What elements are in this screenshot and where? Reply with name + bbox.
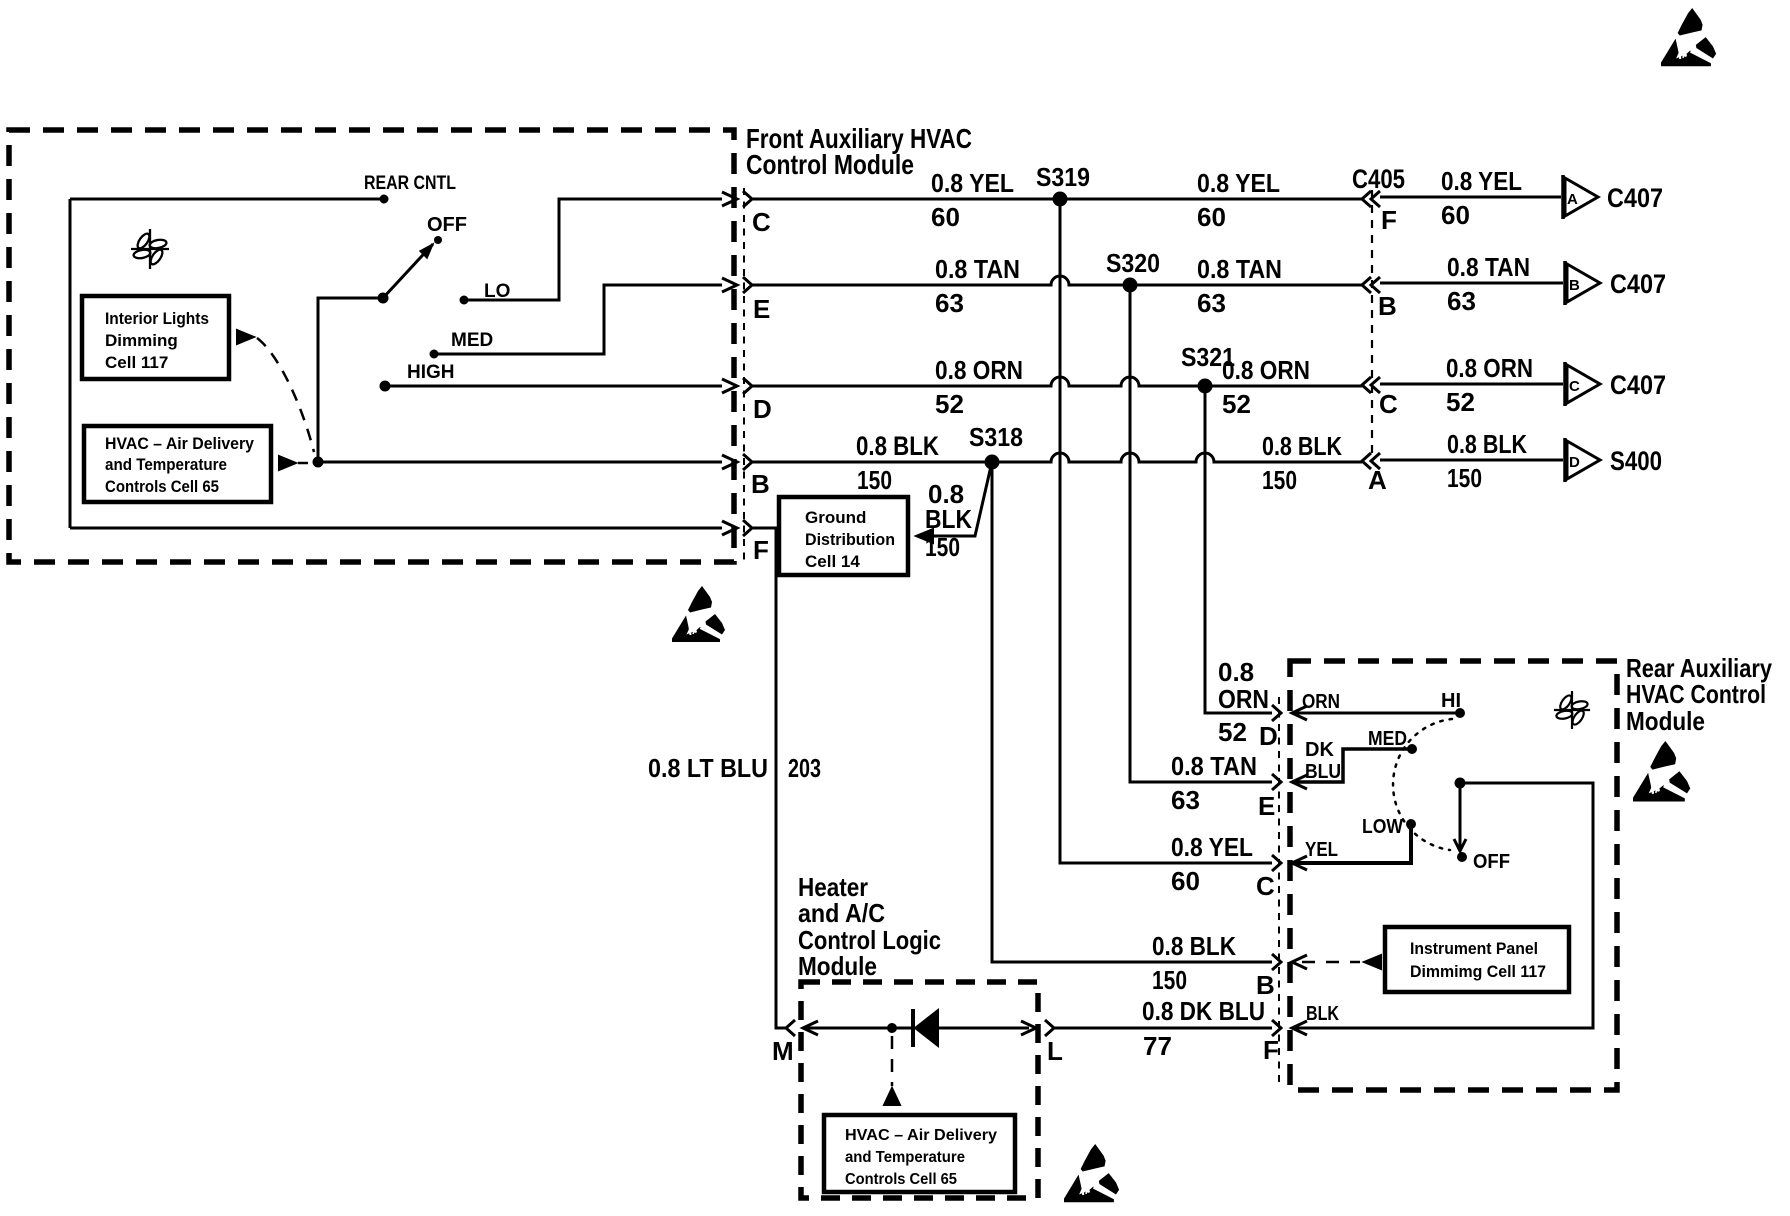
node HI (1455, 708, 1465, 718)
svg-text:C407: C407 (1607, 183, 1663, 213)
svg-text:B: B (1569, 277, 1580, 294)
svg-text:C: C (1379, 389, 1398, 419)
svg-text:HVAC – Air Delivery: HVAC – Air Delivery (105, 434, 254, 453)
svg-text:C: C (1569, 378, 1580, 395)
connector pin F (front module) (743, 520, 752, 536)
connector triangle D S400 (1563, 438, 1567, 482)
splice S319 (1053, 192, 1068, 207)
connector C405 dashed line (1371, 190, 1373, 462)
svg-text:C: C (752, 207, 771, 237)
diode CR (triangle) (915, 1010, 938, 1046)
box: Interior Lights Dimming Cell 117 (82, 296, 229, 379)
connector triangle C C407 (1563, 362, 1567, 406)
svg-text:Interior Lights: Interior Lights (105, 309, 209, 328)
node: HIGH contact (380, 381, 391, 392)
module box: Heater and A/C Control Logic Module (801, 982, 1038, 1198)
svg-text:52: 52 (1218, 717, 1247, 747)
C405 crossing C (1362, 377, 1371, 393)
svg-text:60: 60 (931, 202, 960, 232)
svg-text:ORN: ORN (1302, 691, 1340, 713)
svg-text:E: E (1258, 791, 1275, 821)
svg-text:0.8 TAN: 0.8 TAN (1447, 252, 1530, 282)
svg-text:C: C (1256, 871, 1275, 901)
wire: REAR CNTL feed (70, 198, 384, 201)
wire 0.8 YEL 60 (S319 to C405) (1060, 198, 1362, 201)
svg-text:150: 150 (925, 532, 960, 562)
connector pin B (front module) (743, 454, 752, 470)
svg-text:150: 150 (1152, 965, 1187, 995)
ESD symbol top right (1661, 8, 1716, 66)
svg-text:0.8 YEL: 0.8 YEL (1441, 166, 1522, 196)
module box: Rear Auxiliary HVAC Control Module (1290, 661, 1617, 1090)
svg-text:B: B (751, 469, 770, 499)
svg-text:Module: Module (798, 951, 877, 981)
svg-text:63: 63 (1197, 288, 1226, 318)
svg-text:MED: MED (451, 330, 493, 351)
svg-text:Control Module: Control Module (746, 149, 914, 180)
svg-text:BLK: BLK (1306, 1003, 1339, 1025)
leader arrow from Instrument Panel box (1364, 955, 1381, 969)
svg-text:ORN: ORN (1218, 684, 1269, 714)
C405 crossing A (1362, 453, 1371, 469)
box: HVAC - Air Delivery and Temperature Controls Cell 65 (left) (84, 426, 271, 502)
wire 0.8 ORN 52 (C405 to C407 C) (1380, 383, 1563, 386)
wire: wiper to rear pin F (BLK) (1292, 783, 1593, 1028)
connector triangle A C407 (1561, 175, 1565, 219)
svg-text:0.8 DK BLU: 0.8 DK BLU (1142, 996, 1265, 1026)
node: REAR CNTL contact (380, 195, 389, 204)
svg-text:0.8 YEL: 0.8 YEL (1197, 168, 1280, 198)
svg-text:HVAC – Air Delivery: HVAC – Air Delivery (845, 1127, 997, 1144)
svg-text:HIGH: HIGH (407, 362, 455, 383)
svg-text:C405: C405 (1352, 164, 1405, 194)
svg-text:Dimmimg Cell 117: Dimmimg Cell 117 (1410, 962, 1546, 981)
wire: F row (loop bottom) (70, 527, 722, 530)
svg-text:60: 60 (1197, 202, 1226, 232)
svg-text:F: F (1381, 205, 1397, 235)
ESD symbol near bottom HVAC box (1064, 1144, 1119, 1202)
wire: S320 drop to rear pin E (1130, 285, 1272, 782)
label: Front Auxiliary HVAC Control Module (746, 123, 972, 180)
node: switch pivot (378, 293, 389, 304)
svg-text:52: 52 (1222, 389, 1251, 419)
svg-text:MED: MED (1368, 728, 1407, 750)
svg-text:OFF: OFF (427, 214, 467, 236)
svg-text:0.8 ORN: 0.8 ORN (935, 355, 1023, 385)
wire 0.8 YEL 60 (C405 to C407 A) (1380, 196, 1561, 199)
svg-text:Controls Cell 65: Controls Cell 65 (105, 477, 219, 496)
svg-text:L: L (1047, 1036, 1063, 1066)
svg-text:YEL: YEL (1305, 839, 1338, 861)
connector pin D (front module) (743, 378, 752, 394)
svg-text:63: 63 (1171, 785, 1200, 815)
svg-text:S320: S320 (1106, 248, 1160, 278)
node MED (1407, 744, 1417, 754)
wire: OFF wiper with down arrow (1459, 783, 1462, 851)
svg-text:B: B (1256, 970, 1275, 1000)
svg-text:C407: C407 (1610, 370, 1666, 400)
svg-text:Dimming: Dimming (105, 331, 178, 350)
svg-text:C407: C407 (1610, 269, 1666, 299)
wire: S318 drop to rear pin B (992, 462, 1272, 962)
wire: left loop vertical (switch common) (69, 199, 72, 528)
leader arrow from Interior Lights box (237, 330, 254, 344)
svg-text:HVAC Control: HVAC Control (1626, 679, 1766, 709)
wire 0.8 TAN 63 (C405 to C407 B) (1380, 282, 1563, 285)
box: HVAC - Air Delivery and Temperature Controls Cell 65 (bottom) (824, 1115, 1015, 1192)
svg-text:Ground: Ground (805, 508, 866, 527)
svg-text:and A/C: and A/C (798, 898, 885, 928)
fan icon (rear blower) (1554, 691, 1590, 729)
svg-text:Module: Module (1626, 706, 1705, 736)
module box: Front Auxiliary HVAC Control Module (9, 130, 734, 562)
connector pin F (rear module) (1272, 1020, 1281, 1036)
diode CR (cathode bar) (911, 1009, 915, 1047)
wire: pin F to M (0.8 LT BLU 203) (752, 528, 786, 1028)
switch blade (fan switch wiper) (383, 244, 433, 298)
svg-text:OFF: OFF (1473, 851, 1510, 873)
node: wiper junction (1455, 778, 1466, 789)
box: Ground Distribution Cell 14 (779, 497, 908, 575)
wire: LO to pin C (464, 199, 722, 300)
connector pin L (1021, 1021, 1036, 1035)
connector triangle B C407 (1563, 261, 1567, 305)
node LOW (1406, 819, 1416, 829)
svg-text:0.8 BLK: 0.8 BLK (856, 431, 939, 461)
svg-text:0.8 TAN: 0.8 TAN (1171, 751, 1257, 781)
svg-text:Distribution: Distribution (805, 530, 895, 549)
svg-text:S318: S318 (969, 422, 1023, 452)
svg-text:77: 77 (1143, 1031, 1172, 1061)
wire: rear D to HI (1292, 712, 1460, 715)
svg-text:0.8 BLK: 0.8 BLK (1447, 429, 1527, 459)
svg-text:REAR CNTL: REAR CNTL (364, 173, 456, 194)
svg-text:150: 150 (1262, 465, 1297, 495)
connector pin C (rear module) (1272, 855, 1281, 871)
connector pin B (rear module) (1272, 954, 1281, 970)
C405 crossing F (1362, 191, 1371, 207)
svg-text:B: B (1378, 291, 1397, 321)
wire 0.8 ORN 52 (S321 to C405) (1205, 385, 1362, 388)
wire: pivot to junction (318, 298, 383, 462)
svg-text:0.8 YEL: 0.8 YEL (1171, 832, 1253, 862)
svg-text:0.8 TAN: 0.8 TAN (935, 254, 1020, 284)
dashed leader to HVAC cell box (891, 1036, 894, 1086)
connector pin E (rear module) (1272, 774, 1281, 790)
svg-text:0.8 BLK: 0.8 BLK (1262, 431, 1342, 461)
dashed leader to junction (257, 338, 314, 452)
svg-text:and Temperature: and Temperature (845, 1149, 965, 1166)
wire 0.8 ORN 52 (pin D to S321) (752, 377, 1205, 386)
svg-text:0.8 ORN: 0.8 ORN (1222, 355, 1310, 385)
svg-text:E: E (753, 294, 770, 324)
label: Heater and A/C Control Logic Module (798, 872, 941, 981)
fan icon (front blower) (131, 229, 169, 269)
svg-text:F: F (1263, 1035, 1279, 1065)
svg-text:M: M (772, 1036, 794, 1066)
svg-text:0.8 BLK: 0.8 BLK (1152, 931, 1236, 961)
svg-text:63: 63 (935, 288, 964, 318)
svg-text:BLU: BLU (1305, 761, 1341, 783)
arrow into ground box (916, 529, 933, 543)
svg-text:203: 203 (788, 753, 821, 783)
wire: L to rear pin F (0.8 DK BLU 77) (1054, 1027, 1272, 1030)
svg-text:Instrument Panel: Instrument Panel (1410, 939, 1538, 958)
node: LO contact (460, 296, 469, 305)
node: OFF contact (434, 236, 442, 244)
wire 0.8 BLK 150 (C405 to S400 D) (1380, 459, 1563, 462)
svg-text:D: D (1259, 721, 1278, 751)
splice S320 (1123, 278, 1138, 293)
svg-text:150: 150 (857, 465, 892, 495)
svg-text:Cell 117: Cell 117 (105, 353, 168, 372)
svg-text:150: 150 (1447, 463, 1482, 493)
svg-text:A: A (1567, 191, 1578, 208)
wire: HIGH to pin D (385, 385, 722, 388)
svg-text:0.8 YEL: 0.8 YEL (931, 168, 1014, 198)
node: junction to pin B (313, 457, 324, 468)
svg-text:DK: DK (1305, 739, 1334, 761)
svg-text:Controls Cell 65: Controls Cell 65 (845, 1171, 957, 1188)
box: Instrument Panel Dimmimg Cell 117 (1385, 927, 1569, 992)
svg-text:60: 60 (1171, 866, 1200, 896)
svg-text:Cell 14: Cell 14 (805, 552, 860, 571)
wire 0.8 BLK 150 (pin B to S318) (752, 461, 992, 464)
svg-text:60: 60 (1441, 200, 1470, 230)
svg-text:S400: S400 (1610, 446, 1662, 476)
wire 0.8 TAN 63 (pin E to S320) (752, 276, 1130, 285)
node OFF (rear) (1457, 852, 1467, 862)
svg-text:and Temperature: and Temperature (105, 455, 227, 474)
wire: S318 to ground box (933, 466, 991, 536)
front module connector dashed line (743, 188, 745, 560)
wire: rear C to LOW (1292, 824, 1411, 863)
ESD symbol below front module (672, 586, 725, 642)
rear connector dashed line (1278, 697, 1280, 1085)
dashed leader: rear pin B to Instrument Panel box (1302, 961, 1360, 964)
svg-text:0.8 LT BLU: 0.8 LT BLU (648, 753, 768, 783)
svg-text:A: A (1368, 465, 1387, 495)
C405 crossing B (1362, 277, 1371, 293)
leader arrow (points up from HVAC box) (884, 1088, 900, 1105)
wire: MED to pin E (434, 285, 722, 354)
node: diode junction (887, 1023, 897, 1033)
connector pin C (front module) (743, 191, 752, 207)
svg-text:S319: S319 (1036, 162, 1090, 192)
ESD symbol right of rear module (1633, 741, 1690, 801)
svg-text:52: 52 (935, 389, 964, 419)
splice S318 (985, 455, 1000, 470)
label: Rear Auxiliary HVAC Control Module (1626, 653, 1772, 736)
wire 0.8 BLK 150 (S318 to C405) (992, 453, 1362, 462)
svg-text:63: 63 (1447, 286, 1476, 316)
leader arrow from HVAC box (279, 456, 296, 470)
svg-text:D: D (753, 394, 772, 424)
svg-text:D: D (1569, 454, 1580, 471)
wire: diode to L (938, 1027, 1029, 1030)
wire: S319 drop to rear pin C (1060, 199, 1272, 863)
connector pin D (rear module) (1272, 705, 1281, 721)
wire: junction to pin B (318, 461, 722, 464)
connector pin M (786, 1020, 795, 1036)
svg-text:F: F (753, 535, 769, 565)
svg-text:52: 52 (1446, 387, 1475, 417)
svg-text:BLK: BLK (925, 504, 972, 534)
splice S321 (1198, 379, 1213, 394)
wire 0.8 YEL 60 (pin C to S319) (752, 198, 1060, 201)
node: MED contact (430, 350, 439, 359)
wire: S321 drop to rear pin D (1205, 386, 1272, 713)
switch arc (rear fan switch, dotted) (1393, 719, 1452, 850)
wire: M to diode (803, 1027, 913, 1030)
svg-text:0.8: 0.8 (1218, 657, 1254, 687)
svg-text:0.8 ORN: 0.8 ORN (1446, 353, 1533, 383)
svg-text:LOW: LOW (1362, 816, 1403, 838)
svg-text:0.8 TAN: 0.8 TAN (1197, 254, 1282, 284)
connector pin E (front module) (743, 277, 752, 293)
wire 0.8 TAN 63 (S320 to C405) (1130, 284, 1362, 287)
wire: rear E to MED (1292, 749, 1412, 782)
